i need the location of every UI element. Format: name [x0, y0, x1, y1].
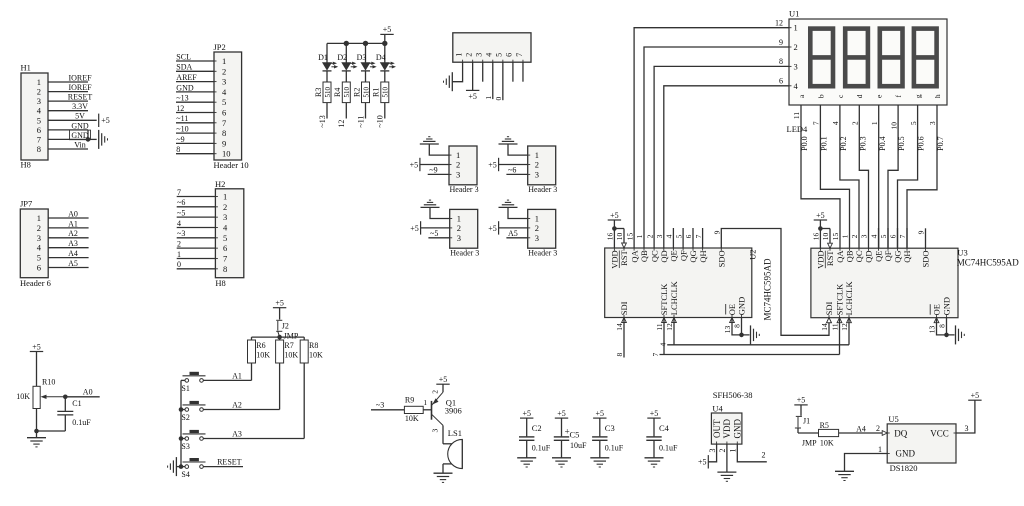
svg-text:S4: S4: [181, 470, 189, 479]
wire H1 GND bus: [87, 130, 89, 140]
wire pin1 to ground: [508, 144, 528, 155]
svg-text:QE: QE: [669, 250, 679, 261]
svg-text:Header 3: Header 3: [450, 185, 479, 194]
svg-text:9: 9: [779, 38, 783, 47]
svg-text:D1: D1: [318, 53, 328, 62]
power +5 (header3 #3): [420, 221, 422, 234]
junction: [382, 41, 387, 46]
wire H2 pin8 (0): [177, 268, 216, 270]
wire LED rail: [327, 42, 385, 44]
wire H1 pin7 (GND): [48, 138, 88, 140]
svg-text:SFTCLK: SFTCLK: [659, 283, 669, 316]
wire pin2 to +5: [421, 227, 450, 229]
svg-text:5V: 5V: [75, 112, 85, 121]
wire JP2 pin9 (~9): [176, 142, 214, 144]
wire C1/R10 to ground: [37, 430, 66, 432]
svg-text:MC74HC595AD: MC74HC595AD: [762, 258, 772, 321]
svg-text:QB: QB: [845, 250, 855, 262]
svg-text:2: 2: [177, 240, 181, 249]
svg-text:1: 1: [794, 23, 798, 33]
svg-text:10K: 10K: [820, 439, 834, 448]
svg-text:S1: S1: [181, 384, 189, 393]
connector Header 3 #2: [528, 146, 556, 185]
wire S3 to A3: [203, 438, 304, 440]
svg-text:7: 7: [177, 188, 181, 197]
svg-text:QF: QF: [678, 250, 688, 261]
wire H2 pin4 (4): [177, 226, 216, 228]
svg-text:A4: A4: [68, 249, 78, 258]
wire H1 pin6 (GND): [48, 129, 88, 131]
wire H2 pin1 (7): [177, 196, 216, 198]
wire J1 to R5: [797, 428, 799, 433]
svg-text:2: 2: [223, 202, 227, 212]
arrow: [934, 318, 939, 323]
wire net 4 (LCHCLK bus): [673, 318, 675, 345]
svg-text:1: 1: [635, 234, 644, 238]
svg-text:10uF: 10uF: [570, 441, 587, 450]
LED D2: [345, 43, 347, 62]
power +5 (panel): [466, 89, 479, 91]
wire pin3 net ~9: [428, 173, 449, 175]
svg-text:d: d: [855, 94, 864, 98]
digit glyph: [880, 29, 903, 87]
wire R8 to A3: [303, 363, 305, 439]
capacitor C5 10uF: [561, 418, 563, 436]
svg-text:3: 3: [222, 77, 226, 87]
svg-text:C1: C1: [72, 399, 81, 408]
svg-text:A0: A0: [83, 388, 93, 397]
power +5 (H1 pin5): [98, 114, 100, 127]
junction: [818, 226, 823, 231]
svg-text:6: 6: [889, 234, 898, 238]
ground (U5): [835, 470, 854, 472]
svg-text:2: 2: [645, 234, 654, 238]
jumper J1 JMP: [800, 405, 802, 416]
svg-text:MC74HC595AD: MC74HC595AD: [957, 258, 1020, 268]
svg-text:+5: +5: [488, 224, 497, 233]
svg-text:15: 15: [625, 233, 634, 241]
svg-text:1: 1: [484, 96, 493, 100]
svg-text:QB: QB: [639, 250, 649, 262]
svg-text:R6: R6: [256, 341, 265, 350]
wire stub: [887, 228, 889, 248]
svg-text:GND: GND: [896, 448, 916, 458]
wire GND: [946, 318, 948, 335]
svg-text:~9: ~9: [176, 135, 184, 144]
svg-text:15: 15: [831, 233, 840, 241]
svg-text:Header 6: Header 6: [20, 278, 51, 288]
wire +5 to R10: [36, 352, 38, 387]
svg-text:+5: +5: [816, 211, 825, 220]
svg-text:~5: ~5: [430, 229, 438, 238]
svg-text:~6: ~6: [508, 166, 516, 175]
resistor R2 510: [362, 82, 370, 103]
svg-text:R9: R9: [405, 395, 414, 404]
wire JP7 pin3 (A2): [48, 237, 88, 239]
junction: [179, 407, 184, 412]
wire H2 pin2 (~6): [177, 206, 216, 208]
svg-text:OE: OE: [932, 304, 942, 315]
wire stub: [878, 228, 880, 248]
svg-text:8: 8: [37, 144, 41, 154]
capacitor C1 0.1uF: [64, 397, 66, 411]
svg-text:R10: R10: [42, 378, 55, 387]
ground (U3): [955, 325, 957, 344]
svg-text:9: 9: [917, 230, 926, 234]
svg-text:5: 5: [222, 97, 226, 107]
svg-text:11: 11: [655, 323, 664, 330]
collector wire: [432, 414, 444, 425]
arrow: [847, 318, 852, 323]
junction: [179, 464, 184, 469]
wire H2 pin6 (2): [177, 247, 216, 249]
svg-text:4: 4: [177, 219, 181, 228]
svg-text:+5: +5: [383, 25, 392, 34]
connector Header 3 #4: [528, 209, 556, 248]
svg-text:3: 3: [223, 212, 227, 222]
svg-text:2: 2: [850, 234, 859, 238]
ground (header3 #2): [499, 143, 518, 145]
svg-text:3: 3: [655, 234, 664, 238]
svg-text:~5: ~5: [177, 209, 185, 218]
svg-text:LS1: LS1: [448, 428, 462, 438]
svg-text:SDO: SDO: [921, 251, 931, 268]
svg-text:D2: D2: [337, 53, 347, 62]
svg-text:1: 1: [454, 53, 463, 57]
svg-text:SDI: SDI: [824, 302, 834, 316]
svg-text:12: 12: [775, 19, 783, 28]
svg-text:14: 14: [820, 323, 829, 331]
svg-text:~10: ~10: [176, 125, 188, 134]
svg-text:0.1uF: 0.1uF: [605, 443, 624, 452]
arrow: [837, 318, 842, 323]
LED D1: [326, 43, 328, 62]
capacitor C3 0.1uF: [599, 418, 601, 436]
svg-text:A0: A0: [68, 209, 78, 218]
wire JP2 pin6 (12): [176, 112, 214, 114]
svg-text:~13: ~13: [318, 115, 327, 127]
wire S4 to RESET: [203, 466, 243, 468]
connector H1: [21, 73, 48, 160]
svg-text:VDD: VDD: [816, 251, 826, 269]
svg-text:VCC: VCC: [930, 429, 949, 439]
wire pin5 net 0: [502, 62, 504, 100]
wire pin3 net A5: [506, 237, 527, 239]
wiper arrow: [43, 396, 66, 398]
wire U4 pin3 to +5: [708, 444, 716, 462]
ground (R10): [27, 437, 46, 439]
svg-text:SFTCLK: SFTCLK: [835, 283, 845, 316]
svg-text:3: 3: [708, 449, 717, 453]
wire D4 to R1: [384, 71, 386, 82]
svg-text:3: 3: [431, 428, 440, 432]
svg-text:7: 7: [222, 118, 226, 128]
svg-text:4: 4: [485, 53, 494, 57]
ground (C5): [552, 457, 571, 459]
resistor R9 10K: [404, 406, 423, 413]
svg-text:3: 3: [535, 233, 539, 243]
svg-text:12: 12: [176, 104, 184, 113]
potentiometer R10 10K: [33, 386, 40, 408]
svg-text:H2: H2: [215, 179, 225, 189]
svg-text:GND: GND: [71, 121, 89, 130]
switch S2: [185, 408, 189, 412]
svg-text:10K: 10K: [309, 351, 323, 360]
transistor Q1 3906 (PNP): [431, 401, 433, 420]
wire stub: [682, 228, 684, 248]
svg-text:+5: +5: [596, 409, 605, 418]
svg-text:1: 1: [37, 213, 41, 223]
svg-text:3: 3: [475, 53, 484, 57]
wire H2 pin3 (~5): [177, 216, 216, 218]
svg-text:3906: 3906: [445, 406, 462, 416]
wire stub: [702, 228, 704, 248]
svg-text:1: 1: [37, 77, 41, 87]
arrow: [662, 318, 667, 323]
resistor R3 510: [323, 82, 331, 103]
svg-text:JP7: JP7: [20, 199, 32, 209]
svg-text:8: 8: [733, 324, 742, 328]
wire wiper to A0: [65, 396, 99, 398]
junction: [612, 226, 617, 231]
svg-text:R5: R5: [820, 421, 829, 430]
wire U3 SDO stub: [925, 228, 927, 248]
svg-text:RST: RST: [619, 249, 629, 265]
svg-text:h: h: [933, 94, 942, 98]
svg-text:+5: +5: [439, 375, 448, 384]
svg-text:S3: S3: [181, 442, 189, 451]
svg-text:~3: ~3: [177, 229, 185, 238]
svg-text:10K: 10K: [16, 392, 30, 401]
arrow: [730, 318, 735, 323]
junction: [34, 429, 39, 434]
svg-text:QA: QA: [835, 250, 845, 263]
svg-text:6: 6: [222, 108, 226, 118]
wire VDD/RST: [613, 220, 615, 248]
svg-text:OE: OE: [727, 304, 737, 315]
wire segment e to U3: [878, 105, 880, 248]
wire stub: [692, 228, 694, 248]
wire U2 SDO to U3 SDI: [721, 229, 829, 336]
LED D3: [365, 43, 367, 62]
svg-text:H8: H8: [21, 160, 31, 170]
svg-text:2: 2: [535, 223, 539, 233]
svg-text:~6: ~6: [177, 198, 185, 207]
ground (H1): [98, 130, 100, 149]
svg-text:0.1uF: 0.1uF: [659, 443, 678, 452]
svg-text:12: 12: [840, 323, 849, 331]
svg-text:LED4: LED4: [787, 124, 809, 134]
resistor R4 510: [342, 82, 350, 103]
svg-text:LCHCLK: LCHCLK: [844, 281, 854, 316]
svg-text:2: 2: [457, 223, 461, 233]
svg-text:7: 7: [515, 53, 524, 57]
wire pin3 stub: [482, 62, 484, 81]
resistor R7 10K: [279, 337, 281, 340]
svg-text:D4: D4: [376, 53, 386, 62]
wire JP7 pin2 (A1): [48, 227, 88, 229]
svg-text:QF: QF: [883, 250, 893, 261]
wire pullup rail: [252, 336, 305, 338]
svg-text:RESET: RESET: [217, 458, 242, 467]
svg-text:0: 0: [177, 260, 181, 269]
svg-text:A1: A1: [232, 371, 242, 380]
svg-text:JMP: JMP: [284, 331, 299, 340]
svg-text:GND: GND: [737, 297, 747, 315]
wire JP2 pin3 (AREF): [176, 81, 214, 83]
svg-text:1: 1: [841, 234, 850, 238]
svg-text:5: 5: [37, 115, 41, 125]
ground (U2): [750, 325, 752, 344]
digit glyph: [914, 29, 937, 87]
svg-text:5: 5: [223, 233, 227, 243]
svg-text:510: 510: [362, 87, 370, 98]
wire pin2 to +5: [499, 164, 528, 166]
wire pin1 to ground: [430, 207, 450, 218]
wire JP7 pin5 (A4): [48, 257, 88, 259]
svg-text:Header 3: Header 3: [528, 248, 557, 257]
capacitor C2 0.1uF: [526, 418, 528, 436]
wire U5 VCC to +5: [956, 400, 975, 433]
svg-text:8: 8: [176, 145, 180, 154]
svg-text:J1: J1: [803, 416, 810, 425]
svg-text:2: 2: [876, 424, 880, 433]
svg-text:2: 2: [762, 450, 766, 459]
svg-text:6: 6: [505, 53, 514, 57]
svg-text:4: 4: [870, 234, 879, 238]
ground (switches): [175, 457, 177, 476]
svg-text:A5: A5: [68, 259, 78, 268]
resistor R1 510: [381, 82, 389, 103]
switch S4: [185, 465, 189, 469]
svg-text:3: 3: [860, 234, 869, 238]
svg-text:2: 2: [794, 42, 798, 52]
wire JP2 pin1 (SCL): [176, 60, 214, 62]
svg-text:+5: +5: [488, 160, 497, 169]
wire S2 to A2: [203, 409, 279, 411]
svg-text:A1: A1: [68, 219, 78, 228]
svg-text:1: 1: [177, 250, 181, 259]
svg-text:6: 6: [37, 125, 41, 135]
wire D2 to R4: [345, 71, 347, 82]
svg-text:7: 7: [694, 234, 703, 238]
svg-text:510: 510: [382, 87, 390, 98]
svg-text:LCHCLK: LCHCLK: [669, 280, 679, 315]
svg-text:C2: C2: [532, 423, 542, 433]
connector Header 3 #1: [449, 146, 477, 185]
svg-text:U1: U1: [789, 9, 799, 19]
wire U1 pin1 net 12: [634, 28, 789, 248]
svg-text:+5: +5: [610, 211, 619, 220]
ground (U4): [717, 471, 736, 473]
svg-text:4: 4: [831, 121, 840, 125]
resistor R5 10K: [819, 429, 839, 436]
svg-text:U4: U4: [712, 404, 723, 414]
wire H2 pin5 (~3): [177, 237, 216, 239]
wire R3 to net ~13: [326, 103, 328, 119]
wire pin2 to +5: [420, 164, 449, 166]
svg-text:SCL: SCL: [176, 52, 191, 61]
svg-text:16: 16: [812, 233, 821, 241]
svg-text:S2: S2: [181, 413, 189, 422]
svg-text:+5: +5: [32, 342, 41, 351]
wire stub: [897, 228, 899, 248]
svg-text:D3: D3: [357, 53, 367, 62]
svg-text:10K: 10K: [405, 414, 419, 423]
wire S4 left contact: [181, 466, 185, 468]
wire JP2 pin10 (8): [176, 153, 214, 155]
svg-text:+5: +5: [650, 409, 659, 418]
svg-text:8: 8: [223, 264, 227, 274]
svg-text:U3: U3: [957, 248, 967, 258]
svg-text:4: 4: [659, 343, 668, 347]
svg-text:3: 3: [457, 233, 461, 243]
svg-text:5: 5: [909, 121, 918, 125]
svg-text:9: 9: [222, 138, 226, 148]
wire U4 pin2 to ground: [726, 444, 728, 472]
wire S3 left contact: [181, 438, 185, 440]
wire pin4 net 1: [492, 62, 494, 99]
svg-text:QG: QG: [893, 251, 903, 263]
wire pin6 stub: [512, 62, 514, 81]
svg-text:2: 2: [456, 160, 460, 170]
svg-text:2: 2: [222, 66, 226, 76]
svg-text:5: 5: [495, 53, 504, 57]
svg-text:+5: +5: [410, 224, 419, 233]
switch S3: [185, 437, 189, 441]
svg-text:~11: ~11: [176, 114, 188, 123]
wire OE to ground: [732, 318, 750, 335]
svg-text:12: 12: [337, 120, 346, 128]
power +5 (U4): [707, 455, 709, 468]
wire R6 to A1: [251, 363, 253, 380]
resistor R8 10K: [303, 337, 305, 340]
wire S1 left contact: [181, 379, 185, 381]
svg-text:12: 12: [665, 323, 674, 331]
svg-text:+5: +5: [275, 299, 284, 308]
svg-text:3: 3: [37, 96, 41, 106]
svg-text:2: 2: [37, 223, 41, 233]
power +5 (header3 #1): [419, 158, 421, 171]
connector Header 3 #3: [450, 209, 478, 248]
wire ~3 to R9: [371, 409, 404, 411]
svg-text:+5: +5: [101, 116, 110, 125]
svg-text:A4: A4: [856, 425, 866, 434]
junction: [944, 333, 949, 338]
svg-text:JP2: JP2: [214, 42, 226, 52]
wire +5 to LED rail: [384, 34, 386, 43]
svg-text:1: 1: [423, 398, 427, 407]
power +5 (header3 #4): [498, 221, 500, 234]
arrow DQ: [882, 431, 887, 436]
svg-text:7: 7: [812, 121, 821, 125]
svg-text:10: 10: [222, 149, 231, 159]
resistor R6 10K: [251, 337, 253, 340]
svg-text:7: 7: [223, 253, 227, 263]
svg-text:~3: ~3: [376, 400, 384, 409]
svg-text:2: 2: [718, 449, 727, 453]
svg-text:+5: +5: [557, 409, 566, 418]
svg-text:IOREF: IOREF: [68, 73, 92, 82]
svg-text:J2: J2: [282, 321, 289, 330]
svg-text:+5: +5: [698, 458, 707, 467]
svg-text:13: 13: [723, 326, 732, 334]
wire switch common rail: [180, 380, 182, 466]
svg-text:U2: U2: [748, 250, 758, 260]
svg-text:C4: C4: [659, 423, 670, 433]
shift register U2 MC74HC595AD: [605, 248, 752, 318]
wire S2 left contact: [181, 409, 185, 411]
